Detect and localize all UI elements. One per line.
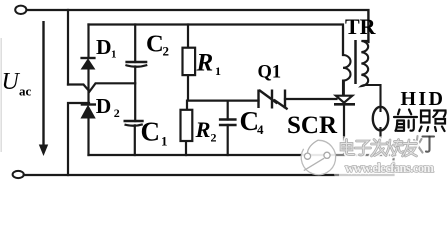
svg-text:ac: ac bbox=[19, 84, 32, 99]
transformer TR secondary winding bbox=[361, 10, 380, 112]
svg-text:HID: HID bbox=[401, 88, 446, 110]
svg-text:R: R bbox=[195, 117, 211, 142]
wire mid horizontal R1-Q1 bbox=[188, 75, 259, 101]
svg-text:SCR: SCR bbox=[287, 112, 338, 139]
thyristor SCR bbox=[334, 81, 355, 155]
wire left drop from top rail bbox=[67, 10, 69, 85]
svg-text:2: 2 bbox=[163, 44, 170, 59]
wire R2 leads bbox=[186, 101, 187, 155]
terminal bottom-left bbox=[13, 171, 24, 178]
resistor R2 bbox=[181, 110, 193, 141]
wire gate Q1 to SCR bbox=[285, 98, 337, 100]
wire kink junction to diode chain bbox=[68, 83, 135, 91]
wire diode chain vertical bbox=[87, 25, 89, 156]
terminal top-left bbox=[15, 6, 26, 14]
wire C column bbox=[134, 25, 137, 156]
watermark logo bbox=[301, 140, 336, 175]
svg-text:2: 2 bbox=[114, 106, 120, 120]
svg-text:1: 1 bbox=[111, 49, 117, 61]
wire bottom rail bbox=[24, 155, 394, 175]
svg-text:1: 1 bbox=[215, 64, 221, 78]
svg-text:4: 4 bbox=[257, 122, 264, 137]
transformer TR primary winding bbox=[343, 27, 351, 96]
svg-text:TR: TR bbox=[345, 14, 377, 39]
label 前 bbox=[394, 110, 417, 131]
diode D2 bbox=[81, 105, 96, 119]
wire C4 leads bbox=[227, 101, 229, 155]
svg-text:D: D bbox=[96, 35, 112, 59]
wire second rail bbox=[89, 25, 344, 56]
lamp bottom electrode lead bbox=[379, 127, 381, 155]
svg-text:www.elecfans.com: www.elecfans.com bbox=[345, 161, 435, 175]
label 照 bbox=[420, 111, 446, 132]
transformer core bbox=[354, 40, 357, 84]
capacitor C2 plates bbox=[125, 62, 147, 67]
watermark text 电子发烧友 (white glow + gray) bbox=[341, 140, 417, 157]
lamp HID bbox=[373, 107, 388, 131]
resistor R1 bbox=[183, 48, 196, 75]
scan edge artifact bbox=[0, 38, 2, 152]
svg-text:Q1: Q1 bbox=[258, 63, 282, 83]
source arrow Uac bbox=[39, 21, 48, 156]
svg-text:R: R bbox=[196, 49, 214, 76]
watermark halo bbox=[334, 136, 448, 178]
diac Q1 bbox=[259, 90, 288, 110]
svg-text:U: U bbox=[2, 69, 21, 95]
wire R1 top lead bbox=[187, 25, 189, 48]
capacitor C4 plates bbox=[219, 120, 237, 126]
svg-text:C: C bbox=[146, 31, 164, 58]
diode D1 bbox=[80, 58, 95, 69]
wire top rail bbox=[27, 10, 369, 42]
wire branch to bottom rail bbox=[68, 103, 89, 175]
svg-text:2: 2 bbox=[211, 131, 217, 145]
svg-text:D: D bbox=[96, 94, 112, 118]
wire mid-bottom rail bbox=[89, 154, 394, 156]
capacitor C1 plates bbox=[124, 121, 144, 126]
svg-text:1: 1 bbox=[161, 134, 168, 149]
label 灯 (faded by watermark) bbox=[412, 136, 435, 153]
svg-text:C: C bbox=[141, 117, 161, 147]
